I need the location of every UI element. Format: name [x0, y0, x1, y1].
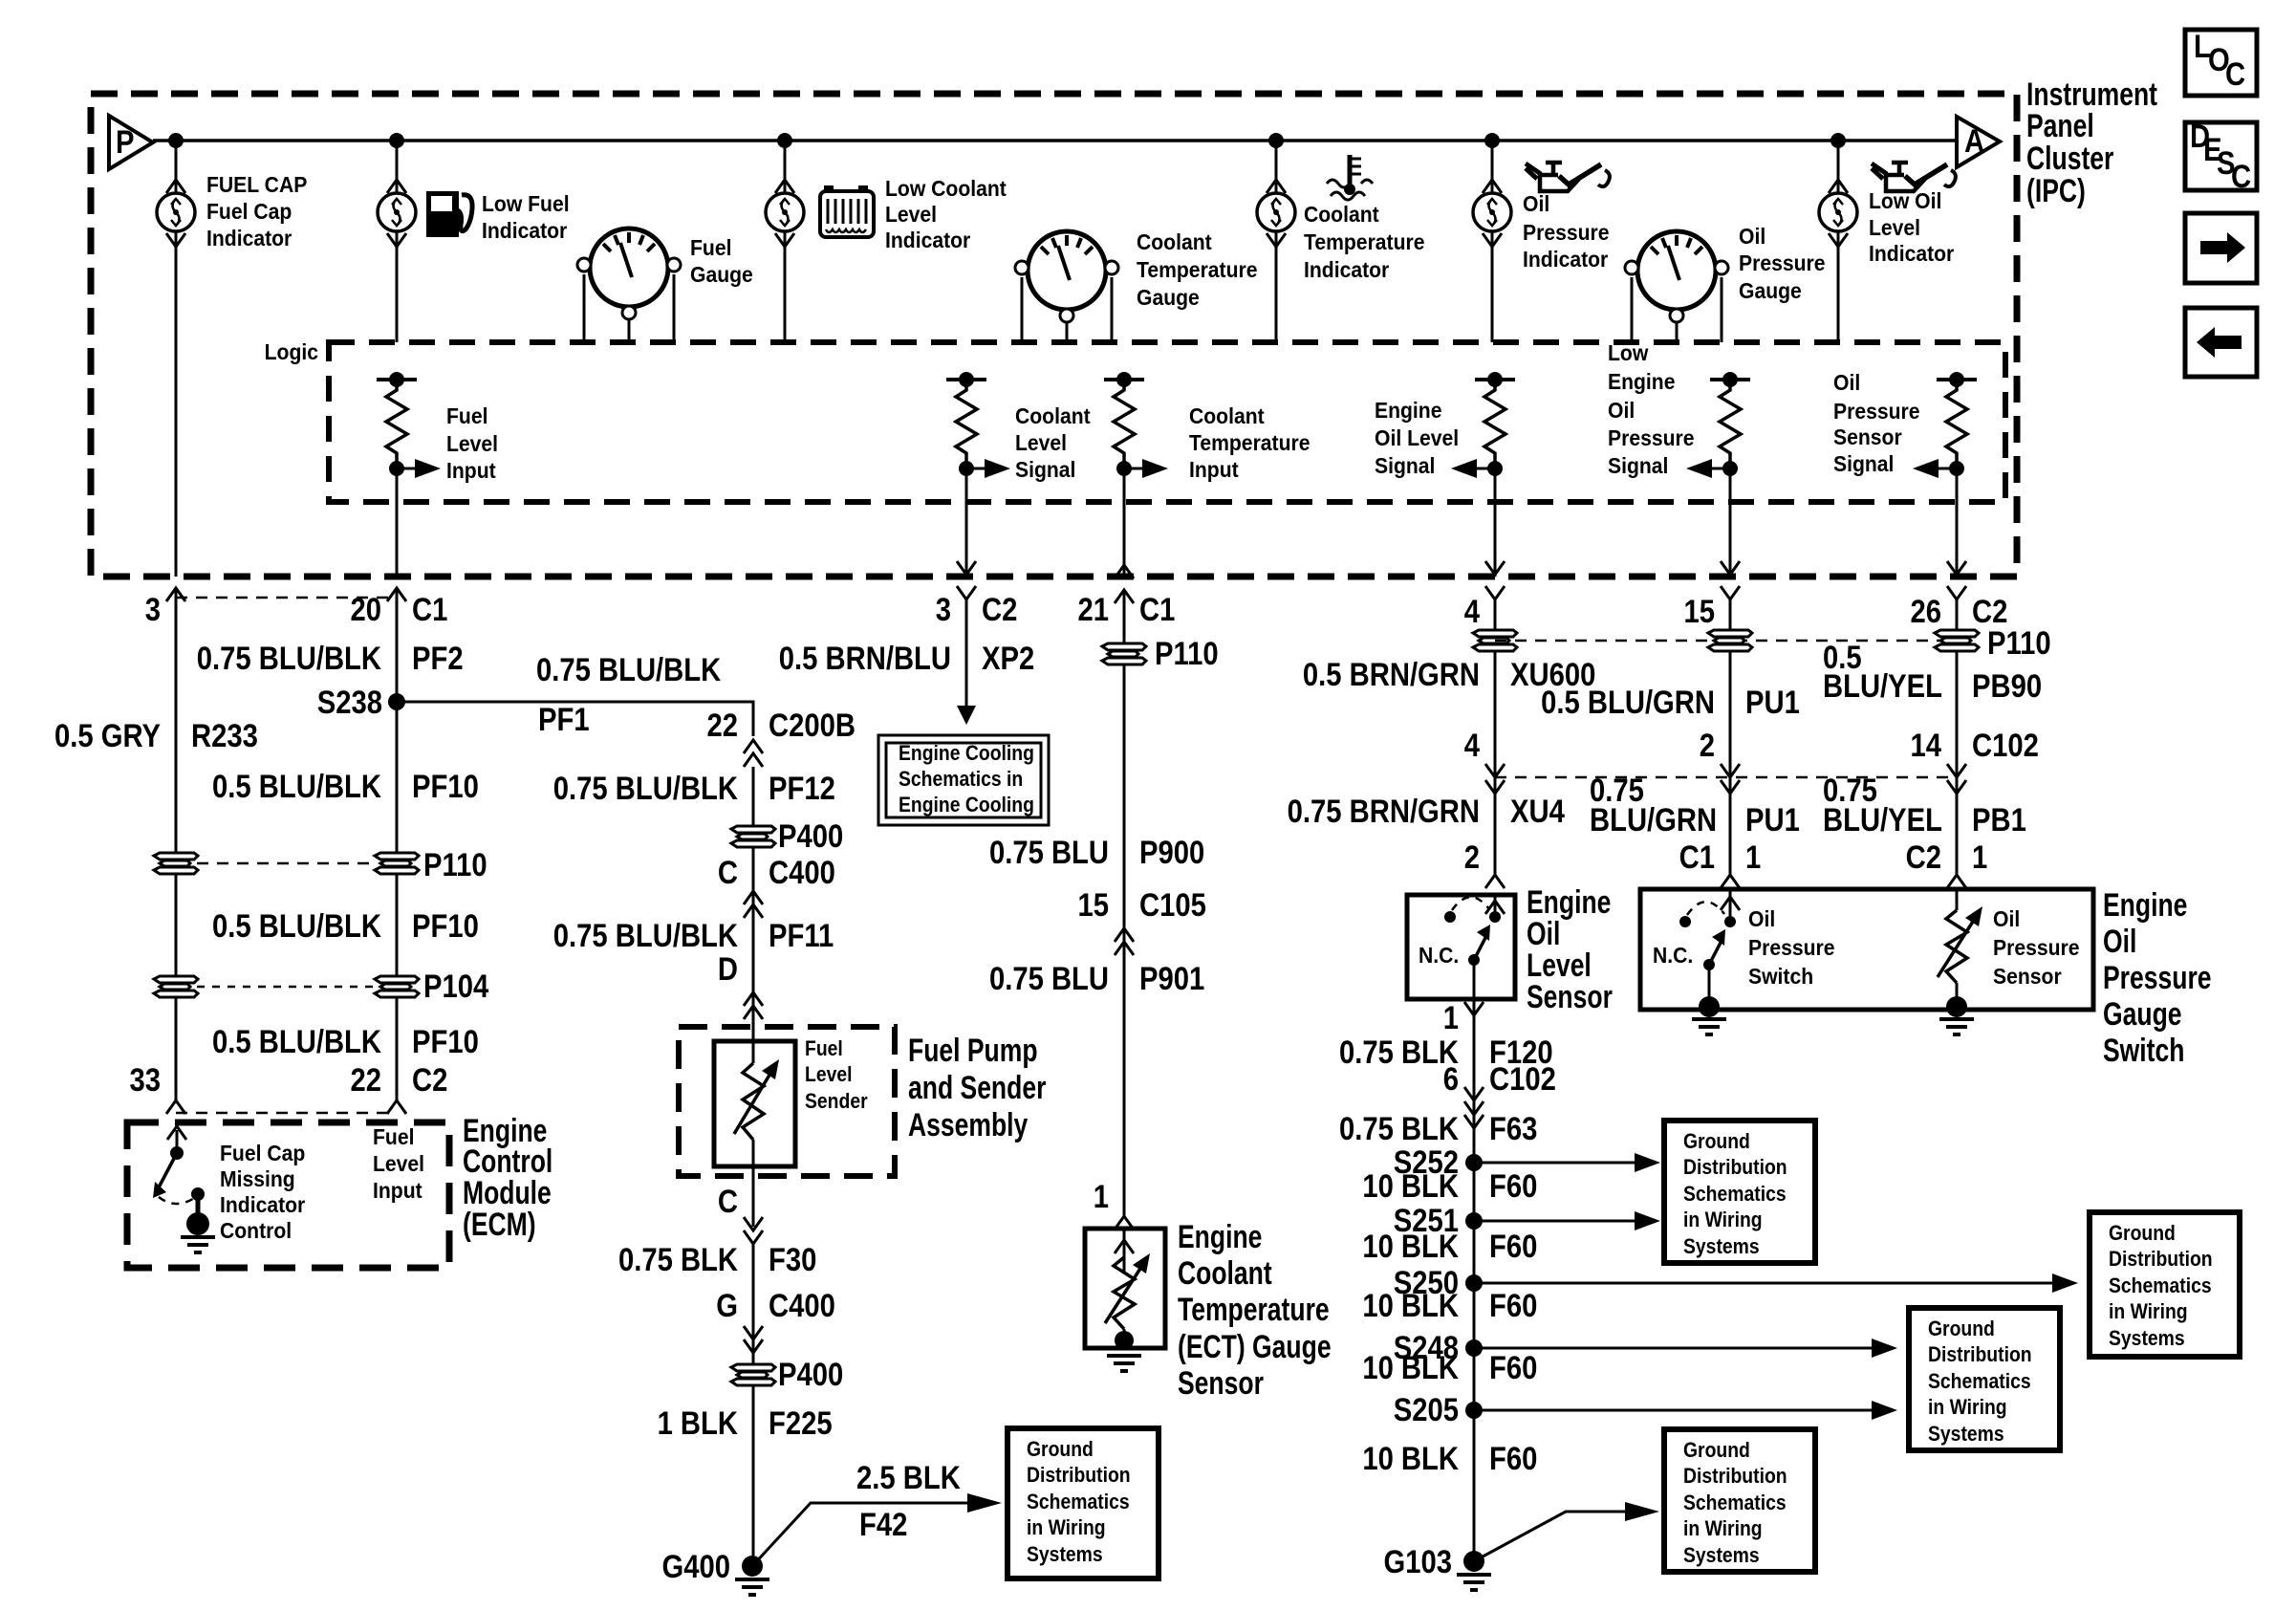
ECT sensor box	[1085, 1229, 1165, 1348]
svg-text:Distribution: Distribution	[1928, 1343, 2032, 1366]
svg-text:2: 2	[1700, 727, 1715, 764]
wire: coolant gauge left terminal drop	[1021, 277, 1024, 342]
svg-text:F225: F225	[769, 1404, 833, 1442]
svg-text:10 BLK: 10 BLK	[1362, 1440, 1459, 1477]
connector chevron: oil pressure sensor below IPC	[1947, 586, 1966, 599]
wire: oil pressure sensor to ground	[1956, 983, 1959, 1004]
svg-text:0.75 BLK: 0.75 BLK	[1339, 1110, 1459, 1147]
svg-text:Level: Level	[373, 1151, 424, 1176]
connector chevron: fuel level wire exits IPC	[387, 588, 406, 601]
svg-text:Indicator: Indicator	[220, 1192, 306, 1217]
svg-text:20: 20	[350, 591, 381, 628]
node: bottom junction of Engine Oil Level Signal resistor	[1487, 461, 1503, 476]
wire: coolant gauge right terminal drop	[1111, 277, 1114, 342]
wire: oil gauge left terminal drop	[1631, 277, 1634, 342]
connector chevron above Low Oil Level Indicator	[1829, 180, 1848, 193]
svg-text:F60: F60	[1489, 1349, 1537, 1386]
resistor: Engine Oil Level Signal	[1484, 380, 1505, 468]
arrow down: coolant level signal leaves IPC	[957, 561, 976, 575]
Fuel Pump and Sender Assembly dashed box	[679, 1027, 895, 1176]
svg-text:Switch: Switch	[2103, 1033, 2184, 1069]
svg-text:0.5 GRY: 0.5 GRY	[54, 717, 161, 754]
indicator lamp Low Coolant Level Indicator	[766, 193, 804, 231]
reference box: Ground Distribution 1	[1664, 1121, 1815, 1263]
wire: coolant temperature sensor run	[1123, 590, 1126, 1216]
connector chevron below Coolant Temperature Indicator	[1267, 233, 1286, 247]
arrow: S252 to ground distribution	[1474, 1153, 1660, 1172]
svg-text:0.75 BLU: 0.75 BLU	[989, 960, 1109, 997]
svg-text:Schematics in: Schematics in	[899, 768, 1023, 791]
svg-text:Assembly: Assembly	[908, 1107, 1028, 1143]
wire: Fuel Cap Indicator output	[175, 231, 178, 577]
svg-text:F42: F42	[859, 1506, 907, 1543]
svg-text:Sensor: Sensor	[1178, 1365, 1264, 1402]
wire: rail drop to Low Oil Level Indicator	[1837, 141, 1840, 193]
connector chevron: engine oil level below IPC	[1485, 586, 1505, 599]
wire: oil pressure sensor run	[1956, 599, 1959, 875]
resistor: Oil Pressure Sensor Signal	[1946, 380, 1967, 468]
gauge: Fuel Gauge	[577, 229, 681, 319]
svg-text:C: C	[2231, 158, 2251, 195]
svg-text:P400: P400	[778, 817, 843, 855]
resistor: Low Engine Oil Pressure Signal	[1720, 380, 1741, 468]
node: top bar of Engine Oil Level Signal resistor	[1475, 378, 1515, 381]
svg-text:D: D	[718, 950, 738, 988]
connector chevron above Low Fuel Indicator	[387, 180, 406, 193]
svg-text:3: 3	[936, 591, 951, 628]
svg-text:Fuel: Fuel	[373, 1124, 414, 1149]
arrow down: low oil pressure leaves IPC	[1721, 561, 1740, 575]
wire: fuel level input run	[396, 588, 399, 1100]
svg-text:PB90: PB90	[1972, 667, 2042, 705]
thin dashed line: P110 row (right)	[1495, 640, 1957, 642]
node: bottom junction of Coolant Level Signal resistor	[959, 461, 974, 476]
svg-text:G400: G400	[662, 1548, 730, 1585]
svg-text:0.75 BLU/BLK: 0.75 BLU/BLK	[197, 640, 381, 677]
thin dashed connector line: IPC C1/C2 row (left)	[176, 597, 397, 599]
svg-text:0.75 BLU/BLK: 0.75 BLU/BLK	[553, 770, 738, 807]
signal arrow: Low Engine Oil Pressure Signal	[1686, 459, 1730, 478]
node: top bar of Oil Pressure Sensor Signal resistor	[1937, 378, 1977, 381]
svg-text:4: 4	[1464, 727, 1481, 764]
connector chevron below C102 (oil level)	[1485, 780, 1505, 794]
svg-text:P400: P400	[778, 1356, 843, 1393]
svg-text:BLU/GRN: BLU/GRN	[1590, 801, 1717, 838]
node: bottom junction of Oil Pressure Sensor Signal resistor	[1949, 461, 1964, 476]
svg-text:Pressure: Pressure	[1833, 399, 1919, 424]
svg-text:Indicator: Indicator	[1304, 257, 1390, 282]
svg-text:Coolant: Coolant	[1137, 229, 1212, 254]
svg-text:1: 1	[1972, 838, 1987, 876]
svg-text:Fuel Cap: Fuel Cap	[220, 1141, 305, 1165]
connector chevron above Coolant Temperature Indicator	[1267, 180, 1286, 193]
svg-text:(ECT) Gauge: (ECT) Gauge	[1178, 1329, 1332, 1365]
svg-text:Fuel: Fuel	[446, 403, 487, 428]
svg-text:2: 2	[1464, 838, 1480, 876]
svg-text:Engine: Engine	[1375, 398, 1441, 423]
svg-text:0.75 BLK: 0.75 BLK	[618, 1241, 738, 1278]
svg-text:33: 33	[129, 1061, 161, 1099]
wire: F30 segment	[752, 1244, 755, 1566]
svg-text:Engine: Engine	[1608, 369, 1675, 394]
svg-text:Systems: Systems	[1928, 1423, 2004, 1446]
IPC dashed boundary box	[91, 94, 2017, 577]
svg-text:BLU/YEL: BLU/YEL	[1823, 667, 1942, 705]
svg-text:Low Coolant: Low Coolant	[885, 176, 1007, 201]
svg-text:Engine Cooling: Engine Cooling	[899, 794, 1034, 816]
svg-text:Coolant: Coolant	[1189, 403, 1265, 428]
svg-text:1 BLK: 1 BLK	[658, 1404, 739, 1442]
svg-text:PF11: PF11	[769, 917, 834, 954]
wire: out of fuel level sender	[752, 1140, 755, 1227]
node: bottom junction of Fuel Level Input resistor	[389, 461, 404, 476]
svg-text:C400: C400	[769, 1287, 835, 1324]
svg-text:Logic: Logic	[265, 339, 318, 364]
svg-text:0.75 BRN/GRN: 0.75 BRN/GRN	[1288, 793, 1480, 830]
svg-text:S238: S238	[317, 684, 382, 721]
svg-text:Indicator: Indicator	[1523, 247, 1609, 272]
svg-text:Temperature: Temperature	[1137, 257, 1257, 282]
svg-text:C: C	[2225, 55, 2245, 93]
svg-text:Indicator: Indicator	[885, 228, 971, 252]
svg-text:BLU/YEL: BLU/YEL	[1823, 801, 1942, 838]
wire: Coolant Temperature Indicator output	[1275, 231, 1278, 342]
svg-text:P110: P110	[1155, 635, 1219, 672]
connector chevron below Low Fuel Indicator	[387, 233, 406, 247]
svg-text:FUEL CAP: FUEL CAP	[206, 172, 307, 197]
svg-text:Gauge: Gauge	[1137, 285, 1200, 310]
svg-text:PU1: PU1	[1745, 684, 1800, 721]
svg-text:Schematics: Schematics	[1027, 1491, 1130, 1513]
svg-text:0.5 BRN/GRN: 0.5 BRN/GRN	[1303, 656, 1480, 693]
svg-text:Gauge: Gauge	[690, 262, 753, 287]
svg-text:Pressure: Pressure	[1993, 935, 2079, 960]
svg-text:Ground: Ground	[1683, 1439, 1750, 1462]
svg-text:Systems: Systems	[2109, 1327, 2185, 1350]
A triangle (rail continuation)	[1957, 117, 2000, 167]
svg-text:Oil: Oil	[1523, 191, 1549, 216]
wire+arrow inside oil level sensor	[1494, 895, 1497, 917]
wire: oil pressure switch to ground	[1708, 965, 1711, 1004]
svg-text:21: 21	[1077, 591, 1109, 628]
svg-text:Engine: Engine	[2103, 887, 2187, 924]
svg-text:Oil: Oil	[2103, 924, 2136, 960]
svg-text:Indicator: Indicator	[482, 218, 568, 243]
resistor: Coolant Temperature Input	[1114, 380, 1135, 468]
svg-text:A: A	[1964, 122, 1984, 160]
svg-text:Pressure: Pressure	[1739, 250, 1825, 275]
junction node on rail (oil pressure ind)	[1484, 133, 1500, 148]
connector plug (oil pressure, P110 row)	[1708, 630, 1752, 651]
svg-text:F60: F60	[1489, 1287, 1537, 1324]
connector chevrons C400	[744, 891, 763, 904]
connector chevron above Fuel Cap Indicator	[166, 180, 185, 193]
svg-text:Input: Input	[1189, 457, 1239, 482]
svg-text:P: P	[116, 123, 134, 161]
svg-text:Fuel Cap: Fuel Cap	[206, 199, 292, 224]
splice S251	[1465, 1212, 1483, 1230]
wire: coolant gauge bottom terminal drop	[1066, 322, 1069, 342]
reference box: Engine Cooling Schematics	[878, 735, 1049, 825]
wire: S238 branch to fuel pump	[397, 702, 753, 736]
wire: fuel cap indicator control run	[175, 588, 178, 1100]
svg-text:Oil Level: Oil Level	[1375, 425, 1459, 450]
svg-text:Oil: Oil	[1608, 398, 1635, 423]
svg-text:Level: Level	[885, 202, 937, 227]
reference box: Ground Distribution 2	[1909, 1308, 2060, 1450]
svg-text:Systems: Systems	[1683, 1235, 1760, 1258]
connector plug (oil level, P110 row)	[1473, 630, 1517, 651]
nav box back arrow	[2185, 308, 2257, 377]
signal arrow: Engine Oil Level Signal	[1451, 459, 1495, 478]
splice S205	[1465, 1402, 1483, 1419]
svg-text:Coolant: Coolant	[1015, 403, 1091, 428]
wire: oil gauge bottom terminal drop	[1676, 322, 1679, 342]
nav box LOC	[2185, 30, 2257, 96]
svg-text:0.75 BLU/BLK: 0.75 BLU/BLK	[536, 651, 721, 688]
wire: Engine Oil Level Signal drop to IPC edge	[1494, 468, 1497, 577]
connector P400 (fuel sender feed)	[731, 826, 775, 847]
svg-text:C1: C1	[1139, 591, 1175, 628]
svg-text:Schematics: Schematics	[1928, 1370, 2031, 1393]
svg-text:C2: C2	[1906, 838, 1941, 876]
svg-text:10 BLK: 10 BLK	[1362, 1167, 1459, 1205]
icon: fuel pump (low fuel)	[426, 191, 472, 237]
indicator lamp Coolant Temperature Indicator	[1257, 193, 1295, 231]
svg-text:P110: P110	[423, 846, 487, 883]
splice S238	[388, 693, 405, 710]
svg-text:C1: C1	[412, 591, 447, 628]
variable resistor: Oil Pressure Sensor	[1938, 906, 1982, 983]
svg-text:Distribution: Distribution	[1683, 1465, 1787, 1488]
svg-text:C400: C400	[769, 854, 835, 891]
variable resistor: Fuel Level Sender	[734, 1059, 779, 1140]
ground symbol G103	[1457, 1575, 1491, 1590]
reference box: Ground Distribution 4 (far right)	[2090, 1212, 2240, 1357]
svg-text:Level: Level	[1869, 215, 1920, 240]
node: top bar of Fuel Level Input resistor	[377, 378, 417, 381]
svg-text:PF10: PF10	[412, 1023, 479, 1060]
svg-text:P900: P900	[1139, 834, 1204, 871]
connector chevron (sensor entry right)	[1947, 875, 1966, 888]
indicator lamp Oil Pressure Indicator	[1473, 193, 1511, 231]
wire: rail drop to Fuel Cap Indicator	[175, 141, 178, 193]
node: bottom junction of Coolant Temperature Input resistor	[1116, 461, 1132, 476]
svg-text:and Sender: and Sender	[908, 1070, 1047, 1106]
indicator lamp Low Fuel Indicator	[378, 193, 416, 231]
svg-text:Signal: Signal	[1015, 457, 1075, 482]
wire: PF12 segment	[752, 767, 755, 1041]
splice S250	[1465, 1274, 1483, 1292]
svg-text:Indicator: Indicator	[1869, 241, 1955, 266]
svg-text:Input: Input	[446, 458, 496, 483]
svg-text:Fuel: Fuel	[805, 1037, 843, 1060]
ground symbol (ECT)	[1107, 1356, 1141, 1371]
nav box forward arrow	[2185, 213, 2257, 283]
arrowhead into engine cooling reference	[957, 706, 976, 725]
connector chevron above Oil Pressure Indicator	[1483, 180, 1502, 193]
ground node G400	[742, 1556, 763, 1577]
svg-text:Engine Cooling: Engine Cooling	[899, 742, 1034, 765]
signal arrow: Fuel Level Input	[397, 459, 441, 478]
wire: G103 branch to ground distribution	[1474, 1512, 1625, 1561]
svg-text:Gauge: Gauge	[1739, 278, 1802, 303]
wire: into fuel level sender	[752, 1027, 755, 1063]
junction node on rail (fuel cap)	[168, 133, 184, 148]
connector chevron below oil level sensor	[1464, 1002, 1484, 1015]
arrow: S251 to ground distribution	[1474, 1211, 1660, 1230]
connector chevrons (sender out)	[744, 1217, 763, 1230]
svg-text:Signal: Signal	[1375, 453, 1435, 478]
node: top bar of Low Engine Oil Pressure Signal resistor	[1710, 378, 1750, 381]
connector chevron: fuel cap wire into ECM	[166, 1100, 185, 1114]
thin dashed line: P110 pass-through row	[197, 862, 376, 865]
svg-text:PF10: PF10	[412, 907, 479, 945]
connector chevron below C102 (oil sensor)	[1947, 780, 1966, 794]
svg-text:Switch: Switch	[1748, 964, 1813, 989]
svg-text:Control: Control	[220, 1218, 292, 1243]
svg-text:Oil: Oil	[1739, 224, 1765, 249]
svg-text:Distribution: Distribution	[1683, 1156, 1787, 1179]
connector chevrons C400 lower	[744, 1326, 763, 1339]
svg-text:Oil: Oil	[1833, 370, 1860, 395]
svg-text:in Wiring: in Wiring	[1027, 1516, 1106, 1539]
junction node on rail (low fuel)	[389, 133, 404, 148]
junction node on rail (low coolant)	[777, 133, 792, 148]
svg-text:XU4: XU4	[1510, 793, 1565, 830]
svg-text:C2: C2	[982, 591, 1017, 628]
P power triangle	[109, 116, 153, 169]
svg-text:2.5 BLK: 2.5 BLK	[856, 1459, 961, 1496]
arrow: S205 to ground distribution	[1474, 1401, 1897, 1420]
signal arrow: Coolant Temperature Input	[1124, 459, 1168, 478]
svg-text:0.5 BLU/BLK: 0.5 BLU/BLK	[212, 768, 381, 805]
connector P104 (fuel level wire)	[375, 976, 419, 997]
Fuel Level Sender inner box	[714, 1041, 795, 1166]
arrow: S248 to ground distribution	[1474, 1339, 1897, 1358]
arrow: S250 to ground distribution (far right)	[1474, 1274, 2078, 1293]
svg-text:N.C.: N.C.	[1653, 943, 1693, 968]
connector chevron below Oil Pressure Indicator	[1483, 233, 1502, 247]
connector P110 (coolant temp wire)	[1102, 643, 1146, 664]
wire: oil level sensor output	[1473, 960, 1476, 1561]
svg-text:Level: Level	[446, 431, 498, 456]
arrowhead into ground distribution (G103)	[1625, 1502, 1659, 1521]
connector chevron (ECT entry)	[1115, 1216, 1134, 1230]
svg-text:Low: Low	[1608, 340, 1649, 365]
splice S248	[1465, 1339, 1483, 1357]
svg-text:Signal: Signal	[1608, 453, 1668, 478]
svg-text:Oil: Oil	[1748, 906, 1775, 931]
wire: Low Fuel Indicator output	[396, 231, 399, 342]
svg-text:10 BLK: 10 BLK	[1362, 1228, 1459, 1265]
svg-text:0.5 BRN/BLU: 0.5 BRN/BLU	[779, 640, 951, 677]
svg-text:C1: C1	[1679, 838, 1715, 876]
svg-text:Ground: Ground	[2109, 1222, 2176, 1245]
svg-text:22: 22	[706, 707, 738, 744]
connector chevron below Fuel Cap Indicator	[166, 233, 185, 247]
svg-text:26: 26	[1910, 593, 1941, 630]
svg-text:Input: Input	[373, 1178, 422, 1203]
svg-text:0.75 BLK: 0.75 BLK	[1339, 1034, 1459, 1071]
svg-text:F63: F63	[1489, 1110, 1537, 1147]
wire: Coolant Temperature Input drop to IPC edge	[1123, 468, 1126, 577]
ground node (ECT)	[1123, 1329, 1126, 1342]
svg-text:10 BLK: 10 BLK	[1362, 1349, 1459, 1386]
node: top bar of Coolant Level Signal resistor	[946, 378, 986, 381]
connector chevron (sensor entry)	[1485, 875, 1505, 888]
wire into oil pressure sensor	[1956, 889, 1959, 910]
svg-text:(IPC): (IPC)	[2026, 173, 2086, 209]
svg-text:Missing: Missing	[220, 1166, 295, 1191]
svg-text:PU1: PU1	[1745, 801, 1800, 838]
connector chevron (switch entry)	[1721, 875, 1740, 888]
wire+arrow inside oil pressure switch	[1729, 889, 1732, 922]
wire: oil pressure switch run	[1729, 599, 1732, 875]
svg-text:Coolant: Coolant	[1304, 202, 1379, 227]
svg-text:G103: G103	[1384, 1543, 1452, 1580]
node: top bar of Coolant Temperature Input resistor	[1104, 378, 1144, 381]
wire: engine oil level sensor run	[1494, 599, 1497, 875]
Engine Control Module dashed box	[127, 1122, 449, 1268]
svg-text:P901: P901	[1139, 960, 1204, 997]
junction node on rail (low oil level)	[1830, 133, 1846, 148]
connector chevron below C102 (oil pressure)	[1721, 780, 1740, 794]
svg-text:14: 14	[1910, 727, 1941, 764]
svg-text:Oil: Oil	[1993, 906, 2020, 931]
svg-text:F60: F60	[1489, 1228, 1537, 1265]
reference box: Ground Distribution (G400)	[1007, 1428, 1159, 1578]
wire: rail drop to Low Coolant Level Indicator	[784, 141, 787, 193]
svg-text:Pressure: Pressure	[1523, 220, 1609, 245]
wire: Fuel Level Input drop to IPC edge	[396, 468, 399, 577]
svg-text:6: 6	[1443, 1060, 1459, 1098]
svg-text:Distribution: Distribution	[1027, 1464, 1131, 1487]
svg-text:Indicator: Indicator	[206, 226, 292, 250]
svg-text:Pressure: Pressure	[1608, 425, 1694, 450]
ground symbol (oil pressure switch)	[1692, 1019, 1726, 1034]
svg-text:Cluster: Cluster	[2026, 141, 2113, 177]
connector P400 (lower)	[731, 1364, 775, 1385]
switch: Fuel Cap Missing Indicator Control	[153, 1126, 209, 1235]
svg-text:C2: C2	[412, 1061, 447, 1099]
wire: Oil Pressure Indicator output	[1491, 231, 1494, 342]
wire: Coolant Level Signal drop to IPC edge	[965, 468, 968, 577]
signal arrow: Oil Pressure Sensor Signal	[1913, 459, 1957, 478]
svg-text:15: 15	[1077, 886, 1109, 924]
svg-text:Fuel: Fuel	[690, 235, 731, 260]
svg-text:1: 1	[1745, 838, 1761, 876]
svg-text:22: 22	[350, 1061, 381, 1099]
N.C. switch: Oil Pressure Switch	[1679, 902, 1736, 970]
svg-text:(ECM): (ECM)	[463, 1207, 536, 1243]
connector chevron below Low Coolant Level Indicator	[775, 233, 794, 247]
svg-text:S205: S205	[1394, 1391, 1459, 1428]
svg-text:PF1: PF1	[538, 701, 590, 738]
connector chevron above Low Coolant Level Indicator	[775, 180, 794, 193]
svg-text:in Wiring: in Wiring	[1928, 1396, 2007, 1419]
indicator lamp Low Oil Level Indicator	[1819, 193, 1857, 231]
svg-text:4: 4	[1464, 593, 1481, 630]
wire: fuel gauge left terminal drop	[583, 274, 586, 342]
Engine Oil Pressure Gauge Switch box	[1640, 889, 2093, 1010]
svg-text:Coolant: Coolant	[1178, 1255, 1272, 1292]
wire: oil gauge right terminal drop	[1721, 277, 1723, 342]
svg-text:Systems: Systems	[1027, 1543, 1103, 1566]
svg-text:0.5 BLU/BLK: 0.5 BLU/BLK	[212, 1023, 381, 1060]
ground node G103	[1463, 1551, 1484, 1572]
svg-text:R233: R233	[191, 717, 258, 754]
